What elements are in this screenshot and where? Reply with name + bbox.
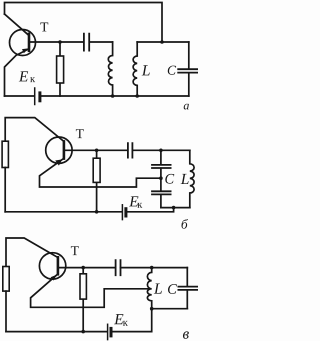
transistor T base bar bbox=[63, 141, 66, 158]
node: coil to bottom rail bbox=[111, 94, 115, 98]
resistor R1 bottom lead bbox=[4, 168, 6, 212]
resistor R2 body bbox=[80, 274, 86, 299]
wire: tank bottom bbox=[161, 207, 190, 209]
label v bbox=[183, 331, 189, 338]
wire: left rail + top wire + collector diagonal bbox=[5, 118, 63, 142]
resistor R1 bottom lead bbox=[5, 291, 7, 332]
resistor R2 body bbox=[93, 158, 100, 182]
capacitor C plates bbox=[178, 287, 197, 290]
resistor R2 leads bbox=[82, 268, 84, 332]
wire: bottom rail right of battery bbox=[113, 309, 152, 332]
capacitor C tank leads bbox=[188, 42, 190, 96]
capacitor C leads bbox=[186, 268, 188, 309]
wire: collector top rail bbox=[5, 3, 163, 43]
transistor T circle bbox=[46, 137, 72, 163]
wire: left rail + top wire + collector diagonal bbox=[6, 238, 58, 267]
node: divider midpoint bbox=[159, 176, 163, 180]
emitter arrow bbox=[51, 275, 57, 281]
coupling coil (feedback winding) bbox=[108, 42, 112, 96]
label T bbox=[71, 246, 79, 255]
resistor R leads bbox=[59, 42, 61, 96]
node: L to bottom rail bbox=[135, 94, 139, 98]
label L bbox=[142, 65, 150, 75]
wire: bottom rail right of battery bbox=[128, 208, 174, 212]
transistor T circle bbox=[39, 253, 65, 279]
capacitor series plates bbox=[128, 143, 132, 157]
transistor T base bar bbox=[28, 34, 31, 51]
capacitor C2 leads bbox=[160, 178, 162, 207]
label C bbox=[165, 174, 174, 184]
resistor R2 leads bbox=[96, 150, 98, 212]
label L bbox=[154, 283, 162, 293]
label L bbox=[181, 174, 189, 184]
capacitor C1 leads bbox=[160, 150, 162, 178]
transistor T base bar bbox=[57, 257, 60, 274]
battery Ek short plate bbox=[124, 209, 127, 216]
node: tank top bbox=[150, 266, 154, 270]
wire: base lead bbox=[31, 41, 113, 43]
battery Ek long plate bbox=[34, 88, 36, 105]
wire: base lead bbox=[65, 149, 190, 151]
emitter arrow bbox=[55, 159, 62, 165]
capacitor C tank plates bbox=[178, 69, 197, 72]
wire: bottom rail left of battery bbox=[5, 95, 34, 97]
wire: bottom rail left of battery bbox=[5, 211, 121, 213]
label C bbox=[168, 284, 177, 294]
resistor R1 body bbox=[3, 267, 9, 292]
wire: base lead bbox=[59, 267, 187, 269]
label a bbox=[184, 104, 189, 110]
battery Ek long plate bbox=[107, 324, 109, 339]
emitter lead with bend bbox=[5, 49, 30, 96]
label T bbox=[40, 22, 48, 31]
wire: tank bottom bbox=[152, 308, 188, 310]
label T bbox=[76, 129, 84, 138]
node: base/resistor junction bbox=[81, 266, 85, 270]
wire: bottom rail left of battery bbox=[6, 331, 107, 333]
node: base/resistor junction bbox=[95, 149, 99, 153]
inductor L with tap bbox=[147, 268, 151, 309]
battery Ek short plate bbox=[38, 93, 41, 101]
node: top rail to tank bbox=[160, 40, 164, 44]
label Ek bbox=[114, 314, 123, 324]
resistor R1 body bbox=[2, 141, 8, 167]
resistor R body bbox=[57, 56, 64, 83]
capacitor C1 plates bbox=[152, 165, 171, 168]
capacitor C2 plates bbox=[152, 191, 171, 194]
node: tank bottom bbox=[150, 307, 154, 311]
wire: tank top bbox=[137, 41, 189, 43]
node: base wire to tank bbox=[159, 149, 163, 153]
emitter lead bbox=[31, 274, 151, 307]
transistor Q (T) circle bbox=[10, 30, 36, 56]
capacitor C series plates bbox=[84, 34, 89, 51]
battery Ek long plate bbox=[121, 205, 123, 220]
battery Ek short plate bbox=[110, 328, 113, 336]
inductor L bbox=[190, 150, 194, 207]
node: battery rail to tank bottom bbox=[172, 206, 176, 210]
label Ek bbox=[129, 196, 138, 206]
inductor L bbox=[133, 42, 137, 96]
wire: bottom rail right of battery bbox=[42, 95, 189, 97]
node: resistor to bottom rail bbox=[81, 330, 85, 334]
wire: collector lead diagonal bbox=[5, 14, 30, 36]
label b bbox=[181, 219, 187, 229]
emitter lead bbox=[40, 158, 161, 187]
label Ek bbox=[19, 71, 28, 81]
node: resistor to bottom rail bbox=[95, 210, 99, 214]
capacitor series plates bbox=[116, 260, 121, 275]
node: base/resistor junction bbox=[58, 40, 62, 44]
label C bbox=[168, 66, 176, 75]
emitter arrow bbox=[22, 48, 28, 53]
